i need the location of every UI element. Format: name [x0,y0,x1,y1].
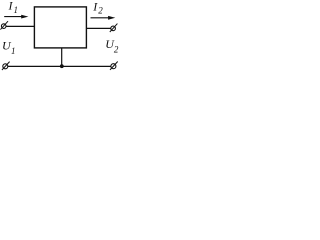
terminal: bottom-right port (circle with slash) [110,62,118,70]
terminal: bottom-left port (circle with slash) [2,62,10,70]
svg-text:U2: U2 [105,37,119,55]
terminal: top-left port (circle with slash) [0,21,8,29]
wire: bottom rail [8,65,112,67]
svg-text:I1: I1 [8,0,19,15]
current arrow I2 [91,16,116,20]
junction dot [60,64,64,68]
svg-text:I2: I2 [92,0,103,16]
wire: left input to box [6,25,35,27]
two-port network box N [34,7,86,48]
terminal: top-right port (circle with slash) [110,24,118,32]
wire: box bottom stub [61,48,63,67]
current arrow I1 [4,15,28,19]
svg-text:U1: U1 [2,38,15,56]
wire: box to right output [86,27,111,29]
